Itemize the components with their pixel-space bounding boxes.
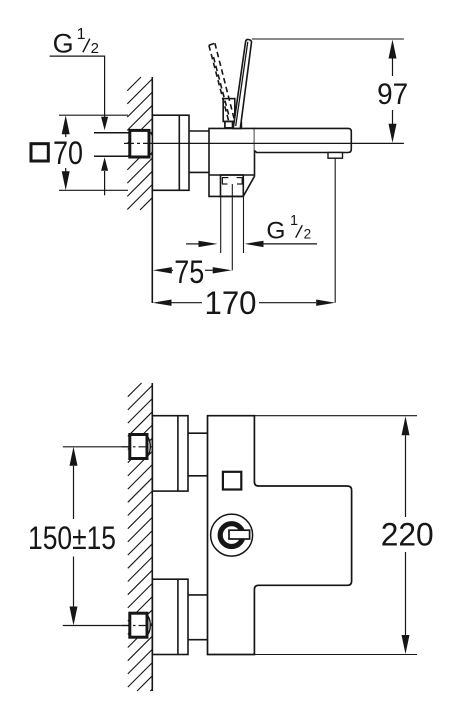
lower neck bbox=[188, 595, 208, 640]
dimension 97: extension line top bbox=[252, 38, 404, 40]
GROHE logo: inner ring bbox=[220, 524, 243, 547]
svg-text:2: 2 bbox=[91, 40, 99, 57]
G 1/2 label (top) bbox=[53, 26, 99, 58]
GROHE logo: bar bbox=[229, 530, 250, 539]
lower supply line / extension bbox=[63, 625, 130, 627]
svg-text:1: 1 bbox=[77, 26, 86, 43]
dimension 70: dimension line + arrows bbox=[65, 133, 67, 172]
dimension 220: arrows + line bbox=[402, 416, 410, 654]
aerator outlet bbox=[328, 153, 343, 159]
wall line (bottom figure) bbox=[151, 383, 153, 691]
lower wall flange (front) bbox=[152, 579, 188, 654]
dimension 97: dimension line + arrows bbox=[389, 40, 397, 143]
G 1/2 label (bottom) bbox=[266, 213, 311, 244]
mixer body (front view, T-shape) bbox=[208, 416, 352, 655]
wall line (top figure) bbox=[151, 77, 153, 303]
G 1/2 leader line bbox=[50, 56, 105, 117]
square symbol bbox=[31, 144, 48, 161]
svg-text:97: 97 bbox=[377, 78, 408, 111]
svg-text:150±15: 150±15 bbox=[28, 520, 116, 556]
svg-text:2: 2 bbox=[304, 227, 312, 242]
dimension 70: extension lines bbox=[59, 115, 128, 190]
axis centerline bbox=[124, 142, 152, 144]
lever inner edge line bbox=[236, 42, 248, 126]
dimension 150±15 bbox=[70, 447, 78, 626]
svg-text:G: G bbox=[53, 28, 74, 58]
outlet extension line bbox=[334, 158, 336, 303]
G 1/2 dimension arrows bbox=[186, 243, 201, 245]
lower union nut bbox=[130, 613, 151, 637]
upper neck bbox=[188, 433, 208, 476]
lever handle base bbox=[223, 99, 235, 122]
spout (side view) bbox=[255, 128, 352, 152]
lever hub bbox=[233, 122, 242, 128]
dimension 220: extension lines bbox=[254, 416, 417, 655]
svg-text:1: 1 bbox=[290, 213, 298, 229]
svg-text:G: G bbox=[266, 218, 285, 245]
union nut (side view) bbox=[130, 130, 154, 157]
lower pointer of connection bbox=[101, 157, 108, 171]
wall hatching (top figure) bbox=[127, 77, 152, 210]
supply pipe stub bbox=[94, 133, 130, 156]
lever (dashed alternate position) bbox=[209, 43, 234, 121]
wall hatching (bottom figure) bbox=[128, 383, 153, 691]
port centerline extension bbox=[231, 184, 233, 270]
dimension 75 bbox=[153, 267, 172, 273]
dimension 170 bbox=[153, 300, 172, 306]
bottom shower outlet port bbox=[221, 175, 244, 196]
svg-text:75: 75 bbox=[174, 254, 204, 290]
wall flange (escutcheon, side view) bbox=[152, 115, 189, 190]
upper union nut bbox=[130, 435, 151, 459]
upper supply line / extension bbox=[63, 446, 130, 448]
body bottom edge bbox=[209, 174, 255, 176]
svg-text:220: 220 bbox=[381, 517, 434, 553]
G 1/2 dimension (bottom port): extension lines bbox=[221, 196, 244, 253]
svg-text:70: 70 bbox=[53, 135, 83, 171]
svg-text:170: 170 bbox=[205, 285, 257, 321]
mixer body (side view) bbox=[209, 128, 255, 196]
lever (solid position) bbox=[233, 39, 251, 128]
neck between flange and body bbox=[189, 131, 209, 172]
upper wall flange (front) bbox=[152, 416, 188, 491]
diverter button (small square) bbox=[223, 472, 241, 490]
GROHE logo: outer circle bbox=[211, 514, 253, 556]
